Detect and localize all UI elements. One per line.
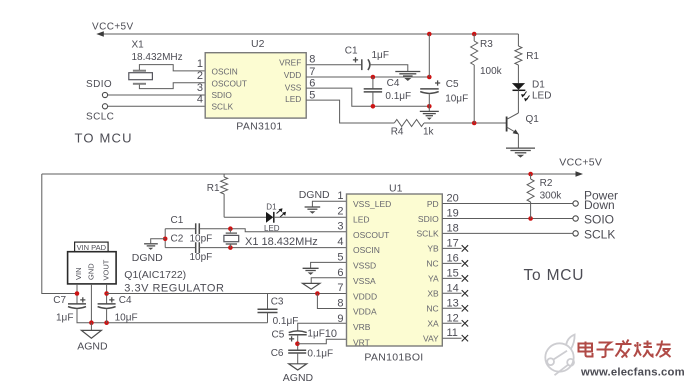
svg-text:OSCIN: OSCIN [212,67,238,77]
diode D1 LED symbol (top) [512,83,530,101]
U1 pin number 9 [337,313,343,325]
svg-text:100k: 100k [480,66,503,77]
node junction VCC rail / R3 [472,32,477,37]
wire U1 pin 17 no-connect stub [442,247,461,249]
wire crystal top to U2 pin 1 [139,65,205,71]
node junction VOUT / C4 / rail [104,291,109,296]
U1 pin number 20 [447,193,459,205]
wire oscillator bottom to U1 pin 4 OSCIN [199,247,346,249]
node junction VDDD / pin 8 branch [315,291,320,296]
svg-text:SOIO: SOIO [584,212,614,226]
diode D1 label (bottom) [266,203,277,212]
IC U1 PAN101BOI body [347,194,443,346]
port SCLK terminal circle [573,231,578,236]
U1 pin label NC [426,304,438,314]
capacitor C5 (1uF polarized, bottom) [289,331,307,335]
svg-text:3: 3 [197,82,203,94]
wire D1 cathode to Q1 collector [517,90,519,113]
resistor R2 label [540,178,553,189]
wire U1 pin 5 VSSD to ground [311,262,347,268]
port SCLC terminal circle [102,104,107,109]
wire U1 pin 9 VRB to C5 [298,323,347,330]
capacitor C4 label (bottom) [119,295,132,306]
U1 pin number 15 [447,267,459,279]
svg-text:PAN101BOI: PAN101BOI [364,352,423,364]
port SDIO terminal circle [102,92,107,97]
svg-text:17: 17 [447,237,459,249]
svg-text:LED: LED [532,90,551,101]
wire AGND stub under regulator [90,323,92,331]
capacitor C4 label [387,78,400,89]
ground symbol AGND (pin 6) open triangle [303,283,320,289]
svg-text:4: 4 [197,93,203,105]
wire VCC rail down to VDD [428,34,430,77]
capacitor C1 label (bottom) [171,215,184,226]
U1 pin label VSSA [353,276,376,286]
wire U2 pin 8 VREF to C1 [306,64,361,66]
wire U2 pin 6 VSS to bottom rail [306,88,429,106]
capacitor C3 label [271,297,284,308]
wire VDD to C4 top [372,77,374,89]
svg-text:3.3V REGULATOR: 3.3V REGULATOR [124,283,224,295]
wire oscillator left vertical [164,229,166,248]
U1 pin number 19 [447,208,459,220]
svg-text:SDIO: SDIO [212,90,233,100]
wire GND pin down to AGND rail [90,284,92,323]
node junction C5 / C6 / pin 10 [295,341,300,346]
resistor R2 (300k) [527,174,534,219]
wire oscillator top to U1 pin 3 OSCOUT [199,229,346,232]
svg-text:VAY: VAY [423,334,439,344]
U2 pin label SDIO [212,90,233,100]
wire C1 to ground [369,65,408,71]
port SDIO label [86,79,112,90]
svg-text:GND: GND [87,263,96,280]
U2 pin number 6 [309,77,315,89]
svg-text:PAN3101: PAN3101 [236,120,282,132]
node junction VDD / C5 column [427,75,432,80]
svg-text:To MCU: To MCU [524,267,585,284]
svg-text:NC: NC [426,259,438,269]
capacitor C7 plus sign [80,297,85,302]
svg-text:U1: U1 [389,182,403,194]
svg-text:VSSA: VSSA [353,276,376,286]
svg-text:XA: XA [427,319,439,329]
svg-text:7: 7 [309,66,315,78]
capacitor C2 (10pF) in line [196,242,200,253]
svg-text:TO MCU: TO MCU [75,131,133,146]
svg-text:AGND: AGND [77,340,108,352]
U1 pin label XB [427,289,439,299]
svg-text:LED: LED [353,215,370,225]
capacitor C5 (10uF polarized) [420,89,439,94]
wire oscillator top: loop to C1 [165,228,195,230]
regulator label 3.3V REGULATOR [124,283,224,295]
resistor R1 label (bottom) [207,183,220,194]
U1 pin label NC [426,259,438,269]
wire VCC+5V top rail with left arrow [96,31,518,37]
watermark text you (friend) [656,341,671,358]
node junction crystal top [228,226,233,231]
svg-text:DGND: DGND [299,189,330,201]
svg-text:SCLK: SCLK [416,229,439,239]
wire C3 bottom to AGND rail [267,313,269,323]
no-connect X pin 15 [462,275,468,281]
svg-text:VIN: VIN [74,267,83,280]
ground symbol under C5 [420,111,439,120]
wire VOUT pin down to VDDD rail [106,284,108,304]
U2 pin label VREF [279,57,301,67]
capacitor C1 plus sign [353,57,358,62]
U1 pin label VSS_LED [353,199,391,209]
wire R1 to D1 anode [224,216,266,218]
svg-text:9: 9 [337,313,343,325]
U1 pin number 10 [325,328,337,340]
capacitor C2 label [171,234,184,245]
capacitor C7 (1uF polarized) [68,304,86,309]
svg-text:C4: C4 [387,78,400,89]
ground symbol DGND at pin 1 [305,207,321,214]
wire U1 pin 1 VSS_LED to DGND [312,201,346,206]
U2 pin number 7 [309,66,315,78]
svg-text:2: 2 [337,205,343,217]
svg-text:VCC+5V: VCC+5V [92,22,134,33]
node junction VDD / C4 [371,75,376,80]
U1 pin label VDDA [353,307,377,317]
svg-text:SDIO: SDIO [86,79,112,90]
label To MCU [524,267,585,284]
svg-text:VSS_LED: VSS_LED [353,199,391,209]
U1 pin label VDDD [353,291,377,301]
svg-text:10pF: 10pF [190,252,213,263]
capacitor C3 (0.1uF) [258,309,278,312]
wire U1 pin 13 no-connect stub [442,307,461,309]
svg-text:18.432MHz: 18.432MHz [132,52,183,63]
wire VDDD 3.3V rail to U1 pin 7 [107,293,347,295]
resistor R1 (top) [515,34,522,83]
crystal X1 label and value (bottom) [245,236,318,248]
svg-text:11: 11 [447,327,458,339]
capacitor C4 value 10uF (bottom) [115,312,138,323]
resistor R4 value 1k [423,127,435,138]
svg-text:VRB: VRB [353,322,371,332]
svg-text:C2: C2 [171,234,184,245]
svg-text:0.1μF: 0.1μF [273,316,299,327]
U2 pin label VDD [284,70,302,80]
wire crystal bottom to U2 pin 2 [139,83,205,89]
node junction DGND stub [163,237,168,242]
IC U1 reference label [389,182,403,194]
capacitor C4 plus sign (bottom) [109,297,114,302]
ground symbol AGND (C6) open triangle [289,364,307,370]
U2 pin number 1 [197,58,203,70]
svg-text:VDD: VDD [284,70,302,80]
watermark text zi (child) [597,343,614,358]
svg-text:C3: C3 [271,297,284,308]
U1 pin number 4 [337,236,343,248]
wire U2 pin 7 VDD rail [306,76,429,78]
regulator Q1 AIC1722 body [68,252,117,284]
svg-text:6: 6 [337,267,343,279]
crystal X1 symbol [129,71,153,84]
diode D1 LED text (bottom) [264,224,280,233]
port SOIO terminal circle [573,216,578,221]
U2 pin number 8 [309,54,315,66]
U2 pin number 5 [309,89,315,101]
U1 pin label SCLK [416,229,439,239]
U2 pin number 2 [197,70,203,82]
wire C5 bottom to junction [297,335,299,351]
capacitor C7 value 1uF [56,312,73,323]
wire U1 pin 18 SCLK to SCLK terminal [442,232,573,234]
regulator pin label VIN [74,267,83,280]
regulator Q1 VIN PAD box [75,242,109,252]
wire VDDD rail down to C3 [267,294,269,310]
svg-text:13: 13 [447,297,459,309]
IC U2 part number PAN3101 [236,120,282,132]
regulator pin label GND [87,263,96,280]
watermark logo elecfans [545,335,574,376]
svg-text:300k: 300k [540,190,563,201]
diode D1 LED text (top) [532,90,551,101]
wire U1 pin 14 no-connect stub [442,292,461,294]
svg-text:R1: R1 [526,51,539,62]
no-connect X pin 11 [462,335,468,341]
watermark text dian (electron) [579,342,593,357]
wire U1 pin 16 no-connect stub [442,262,461,264]
svg-text:VDDD: VDDD [353,291,377,301]
capacitor C5 label (bottom) [272,330,285,341]
capacitor C7 label [53,295,66,306]
wire VCC+5V bottom rail with right arrow [42,171,583,177]
U1 pin label YA [428,274,439,284]
net label DGND (pin 1) [299,189,330,201]
svg-text:X1: X1 [132,40,145,51]
svg-text:C6: C6 [271,348,284,359]
U2 pin number 4 [197,93,203,105]
U1 pin number 5 [337,251,343,263]
svg-text:VSS: VSS [285,82,302,92]
capacitor C1 (10pF) in line [196,223,200,234]
wire D1 cathode to U1 pin 2 [274,216,347,218]
resistor R3 label [480,39,493,50]
U1 pin number 6 [337,267,343,279]
svg-text:10μF: 10μF [445,94,468,105]
svg-text:19: 19 [447,208,459,220]
svg-text:SCLC: SCLC [86,112,114,123]
resistor R2 value 300k [540,190,563,201]
svg-text:VDDA: VDDA [353,307,377,317]
U1 pin label LED [353,215,370,225]
net label VCC+5V (bottom) [559,156,602,168]
no-connect X pin 14 [462,290,468,296]
capacitor C1 label [345,46,358,57]
svg-text:C4: C4 [119,295,132,306]
crystal X1 value 18.432MHz [132,52,183,63]
U1 pin number 7 [337,282,343,294]
svg-text:www.elecfans.com: www.elecfans.com [580,366,685,378]
svg-text:2: 2 [197,70,203,82]
U1 pin label XA [427,319,439,329]
capacitor C4 (0.1uF) [364,89,382,92]
wire SDIO to U2 pin 3 [108,94,206,96]
svg-text:1μF: 1μF [56,312,73,323]
svg-text:C5: C5 [272,330,285,341]
svg-text:6: 6 [309,77,315,89]
svg-text:8: 8 [337,297,343,309]
svg-text:1μF: 1μF [372,50,389,61]
node junction R3 bottom / base line [472,121,477,126]
U1 pin label SDIO [418,214,439,224]
wire C5 bottom to ground [428,94,430,111]
svg-text:VCC+5V: VCC+5V [559,156,602,168]
net label VCC+5V (top) [92,22,134,33]
resistor R4 label [391,127,404,138]
ground symbol AGND (regulator) open triangle [81,330,101,338]
U1 pin number 8 [337,297,343,309]
wire U1 pin 6 VSSA to AGND triangle [311,278,346,284]
wire U1 pin 15 no-connect stub [442,277,461,279]
U2 pin label SCLK [212,102,234,112]
svg-text:R1: R1 [207,183,220,194]
U1 pin label VAY [423,334,439,344]
net label DGND (oscillator) [132,252,163,264]
svg-text:Q1(AIC1722): Q1(AIC1722) [124,269,186,281]
svg-text:12: 12 [447,312,459,324]
no-connect X pin 12 [462,320,468,326]
capacitor C4 (10uF polarized, bottom) [98,304,116,309]
svg-text:YB: YB [427,244,439,254]
IC U2 PAN3101 body [205,53,306,118]
wire VIN pin down through C7 [76,284,78,304]
U1 pin number 16 [447,252,459,264]
capacitor C5 label [446,79,459,90]
U2 pin label VSS [285,82,302,92]
wire C7 bottom to AGND rail [77,309,268,322]
svg-text:4: 4 [337,236,343,248]
wire C4 bottom to VSS rail [372,92,374,106]
wire U1 pin 11 no-connect stub [442,337,461,339]
svg-text:R3: R3 [480,39,493,50]
svg-text:XB: XB [427,289,439,299]
U1 pin label VRB [353,322,371,332]
svg-text:5: 5 [337,251,343,263]
node junction VSS rail / C4 [371,104,376,109]
capacitor C4 value 0.1uF [385,91,411,102]
wire VDDD branch to U1 pin 8 [317,294,346,309]
svg-text:OSCOUT: OSCOUT [212,79,248,89]
capacitor C1 (1uF polarized) [362,59,370,70]
U2 pin label OSCOUT [212,79,248,89]
U1 pin number 3 [337,221,343,233]
capacitor C6 value 0.1uF [307,349,333,360]
wire oscillator bottom: loop to C2 [165,247,195,249]
svg-text:PD: PD [427,199,439,209]
svg-text:1: 1 [337,190,343,202]
svg-text:3: 3 [337,221,343,233]
ground symbol under Q1 [506,148,535,158]
watermark text shao (burn) [634,341,653,358]
node junction crystal bottom [228,245,233,250]
svg-text:C5: C5 [446,79,459,90]
svg-text:5: 5 [309,89,315,101]
svg-text:SCLK: SCLK [212,102,234,112]
transistor Q1 label (top) [526,114,540,125]
node junction VIN / C7 / rail [75,291,80,296]
U1 pin number 17 [447,237,459,249]
wire DGND stub [151,239,166,244]
svg-text:18: 18 [447,222,459,234]
node junction VSS rail / C5 / ground [427,104,432,109]
transistor Q1 NPN [507,113,519,135]
svg-text:Down: Down [584,198,615,212]
U1 pin label OSCOUT [353,230,389,240]
svg-text:X1 18.432MHz: X1 18.432MHz [245,236,318,248]
capacitor C6 (0.1uF) [288,350,306,353]
svg-text:0.1μF: 0.1μF [385,91,411,102]
port label SOIO [584,212,614,226]
IC U1 part number PAN101BOI [364,352,423,364]
svg-text:OSCIN: OSCIN [353,245,380,255]
capacitor C6 label [271,348,284,359]
resistor R3 value 100k [480,66,503,77]
U1 pin number 14 [447,282,459,294]
svg-text:VSSD: VSSD [353,261,376,271]
port label SCLK [584,228,615,242]
svg-text:OSCOUT: OSCOUT [353,230,389,240]
U2 pin number 3 [197,82,203,94]
no-connect X pin 17 [462,245,468,251]
U1 pin number 12 [447,312,459,324]
svg-text:VOUT: VOUT [102,259,111,280]
svg-text:SDIO: SDIO [418,214,439,224]
U1 pin label VRT [353,337,370,347]
diode D1 label (top) [532,79,545,90]
ground symbol DGND at oscillator [144,244,158,250]
wire U2 pin 5 LED down to R4 line [306,100,394,123]
node junction VCC rail / C5 column [427,32,432,37]
label TO MCU [75,131,133,146]
resistor R4 (1k) [394,120,424,127]
U1 pin label VSSD [353,261,376,271]
svg-text:0.1μF: 0.1μF [307,349,333,360]
U1 pin number 18 [447,222,459,234]
svg-text:YA: YA [428,274,439,284]
svg-text:1: 1 [197,58,203,70]
capacitor C1 value 1uF [372,50,389,61]
U1 pin label YB [427,244,439,254]
U2 pin label OSCIN [212,67,238,77]
wire U1 pin 10 VRT to junction [298,339,347,344]
svg-text:VREF: VREF [279,57,301,67]
svg-text:15: 15 [447,267,459,279]
svg-text:20: 20 [447,193,459,205]
port SCLC label [86,112,114,123]
net label AGND (C6) [283,372,314,384]
wire left vertical to regulator VIN [42,174,77,294]
port Power Down terminal circle [573,201,578,206]
capacitor C2 value 10pF [190,252,213,263]
wire R4 to Q1 base [424,122,507,124]
capacitor C3 value 0.1uF [273,316,299,327]
svg-text:14: 14 [447,282,459,294]
node junction AGND rail / C4 [104,320,109,325]
svg-text:LED: LED [285,94,301,104]
svg-text:10pF: 10pF [190,234,213,245]
node junction SDIO / R2 [528,216,533,221]
resistor R1 label (top) [526,51,539,62]
resistor R3 (100k) [471,34,478,123]
